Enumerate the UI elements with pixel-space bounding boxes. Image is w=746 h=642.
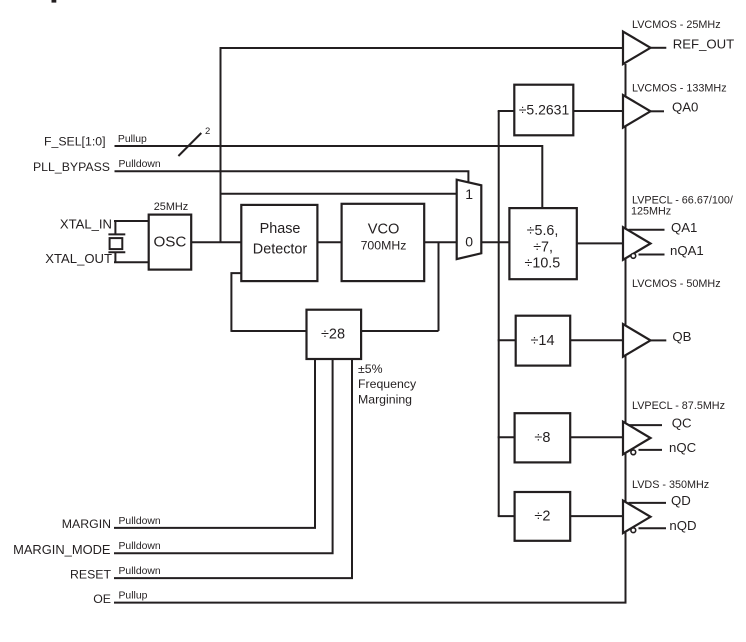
svg-text:Phase: Phase [260, 221, 301, 237]
divider /8 [515, 413, 571, 462]
svg-text:Margining: Margining [358, 392, 412, 406]
stub nQA1 [639, 254, 665, 256]
svg-text:QA0: QA0 [672, 100, 698, 115]
wire XTAL_IN [114, 220, 149, 222]
svg-text:nQA1: nQA1 [670, 243, 704, 258]
stub QA1 [629, 229, 665, 231]
wire div28 output [231, 330, 306, 332]
stub REF_OUT [651, 47, 667, 49]
svg-text:XTAL_OUT: XTAL_OUT [45, 251, 112, 266]
wire mux output to divider [481, 241, 509, 243]
buffer QA1 [623, 227, 651, 260]
wire XTAL_OUT [114, 261, 149, 263]
svg-text:÷2: ÷2 [534, 509, 550, 525]
wire OSC output [191, 241, 241, 243]
svg-text:LVPECL - 66.67/100/: LVPECL - 66.67/100/ [632, 194, 733, 206]
buffer QD [623, 501, 651, 534]
wire rail to div5.2631 [498, 110, 515, 112]
svg-text:LVPECL - 87.5MHz: LVPECL - 87.5MHz [632, 400, 725, 412]
stub QC [629, 424, 663, 426]
wire VCO to mux [424, 241, 457, 243]
svg-text:PLL_BYPASS: PLL_BYPASS [33, 160, 110, 174]
svg-text:QC: QC [672, 415, 692, 430]
svg-text:÷10.5: ÷10.5 [525, 256, 561, 272]
wire rail to div2 [498, 515, 515, 517]
bus slash 2 [178, 133, 201, 156]
divider /28 [307, 310, 362, 359]
wire feedback to div28 [361, 330, 438, 332]
bubble nQD [631, 528, 636, 533]
svg-text:MARGIN_MODE: MARGIN_MODE [13, 542, 111, 557]
divider /5.2631 [514, 85, 573, 136]
wire rail to div14 [498, 339, 516, 341]
stray mark top-left [52, 0, 57, 3]
stub QB [651, 339, 667, 341]
wire div5.2631 output [573, 110, 623, 112]
crystal X1 [108, 221, 125, 262]
wire feedback up to PD [231, 273, 241, 332]
divider /5.6 /7 /10.5 [509, 208, 576, 279]
svg-text:LVCMOS - 25MHz: LVCMOS - 25MHz [632, 19, 721, 31]
bubble nQC [631, 450, 636, 455]
svg-text:F_SEL[1:0]: F_SEL[1:0] [44, 135, 106, 149]
svg-text:125MHz: 125MHz [631, 206, 671, 218]
svg-text:Frequency: Frequency [358, 377, 417, 391]
stub nQC [639, 449, 663, 451]
wire RESET [114, 359, 352, 578]
mux bypass select [457, 180, 482, 259]
wire MARGIN_MODE [114, 359, 333, 553]
svg-text:÷8: ÷8 [534, 430, 550, 446]
svg-text:nQC: nQC [669, 440, 697, 455]
wire rail to div8 [498, 436, 515, 438]
wire VCO feedback down [438, 242, 440, 331]
svg-text:REF_OUT: REF_OUT [673, 36, 735, 51]
wire PD to VCO [317, 241, 341, 243]
wire mux input 1 [221, 193, 457, 195]
svg-text:0: 0 [465, 233, 473, 249]
svg-text:LVCMOS - 133MHz: LVCMOS - 133MHz [632, 82, 727, 94]
svg-text:LVDS - 350MHz: LVDS - 350MHz [632, 479, 709, 491]
svg-text:25MHz: 25MHz [154, 201, 189, 213]
svg-text:Pullup: Pullup [119, 591, 148, 602]
svg-text:Pulldown: Pulldown [119, 541, 161, 552]
wire MARGIN [114, 359, 315, 528]
svg-text:÷28: ÷28 [321, 326, 345, 342]
wire div8 output [570, 436, 623, 438]
svg-text:2: 2 [205, 126, 210, 137]
stub QA0 [651, 110, 664, 112]
svg-text:LVCMOS - 50MHz: LVCMOS - 50MHz [632, 278, 721, 290]
svg-text:Pulldown: Pulldown [119, 516, 161, 527]
svg-text:÷7,: ÷7, [533, 240, 553, 256]
wire OE [114, 64, 626, 603]
phase detector [241, 205, 317, 281]
svg-text:÷5.2631: ÷5.2631 [519, 102, 570, 118]
wire div2 output [570, 515, 623, 517]
svg-text:OSC: OSC [153, 233, 186, 250]
wire div5.6 output [577, 242, 623, 244]
wire divider rail [498, 111, 500, 516]
svg-text:÷5.6,: ÷5.6, [527, 223, 559, 239]
svg-text:XTAL_IN: XTAL_IN [60, 217, 112, 232]
svg-text:700MHz: 700MHz [361, 239, 407, 253]
buffer QB [623, 324, 651, 357]
svg-text:QB: QB [672, 329, 691, 344]
svg-text:±5%: ±5% [358, 362, 383, 376]
svg-text:QA1: QA1 [671, 220, 697, 235]
divider /2 [515, 492, 571, 541]
svg-text:1: 1 [465, 186, 473, 202]
svg-text:VCO: VCO [368, 221, 400, 237]
svg-text:Pulldown: Pulldown [119, 566, 161, 577]
svg-text:OE: OE [93, 592, 111, 606]
svg-text:Detector: Detector [253, 242, 308, 258]
svg-text:MARGIN: MARGIN [62, 517, 111, 531]
buffer QC [623, 422, 651, 455]
wire REF_OUT top line [221, 47, 624, 49]
svg-text:RESET: RESET [70, 567, 111, 581]
wire F_SEL net [115, 146, 543, 208]
wire div14 output [570, 339, 623, 341]
stub nQD [639, 527, 667, 529]
svg-text:QD: QD [671, 493, 691, 508]
svg-text:Pullup: Pullup [118, 134, 147, 145]
buffer REF_OUT [623, 32, 651, 65]
VCO [342, 204, 425, 281]
stub QD [629, 502, 667, 504]
svg-text:nQD: nQD [669, 518, 696, 533]
svg-text:÷14: ÷14 [530, 333, 554, 349]
bubble nQA1 [631, 254, 636, 259]
wire OSC to top vertical [220, 47, 222, 242]
svg-text:Pulldown: Pulldown [119, 159, 161, 170]
divider /14 [516, 316, 571, 366]
wire PLL_BYPASS net [115, 171, 469, 183]
oscillator OSC [149, 215, 192, 270]
buffer QA0 [623, 95, 651, 128]
